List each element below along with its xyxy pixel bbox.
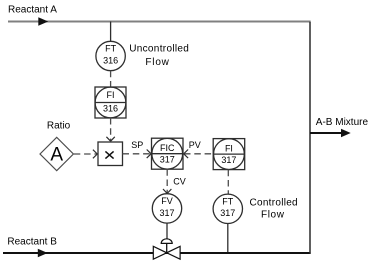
svg-text:316: 316 xyxy=(103,104,118,114)
label Controlled Flow xyxy=(250,197,298,220)
wire tap FT317 to Reactant B pipe xyxy=(227,224,229,253)
svg-text:FV: FV xyxy=(161,196,173,206)
multiplier block (x) xyxy=(98,142,123,166)
flow arrow on Reactant B pipe xyxy=(38,249,48,257)
valve stem xyxy=(166,243,168,252)
svg-text:FT: FT xyxy=(222,197,233,207)
arrowhead into FIC317 left (SP) xyxy=(147,150,151,159)
wire pipe Reactant A (top) xyxy=(8,21,311,23)
svg-text:A-B Mixture: A-B Mixture xyxy=(316,117,369,128)
svg-text:Uncontrolled: Uncontrolled xyxy=(129,43,189,54)
svg-text:316: 316 xyxy=(103,55,118,65)
flow arrow A-B Mixture xyxy=(341,129,351,137)
control valve body xyxy=(153,246,180,259)
transmitter FT317 xyxy=(213,194,242,223)
arrowhead into FV317 top (CV) xyxy=(163,189,171,193)
svg-text:FI: FI xyxy=(107,90,115,100)
svg-text:317: 317 xyxy=(159,208,174,218)
svg-text:Reactant B: Reactant B xyxy=(7,237,57,248)
arrowhead into multiplier left xyxy=(93,150,97,159)
valve actuator dome xyxy=(161,239,172,244)
svg-text:SP: SP xyxy=(131,140,143,150)
svg-text:Reactant A: Reactant A xyxy=(8,5,57,16)
controller FIC317 xyxy=(152,138,184,169)
wire signal CV FIC317 to FV317 (dashed) xyxy=(166,169,168,193)
ratio element A (diamond) xyxy=(40,137,73,170)
svg-text:Ratio: Ratio xyxy=(47,121,71,132)
svg-text:A: A xyxy=(50,145,63,166)
svg-text:FT: FT xyxy=(105,44,116,54)
arrowhead into multiplier top xyxy=(106,137,114,141)
wire signal SP multiplier to FIC317 (dashed) xyxy=(123,153,151,155)
svg-text:317: 317 xyxy=(220,208,235,218)
wire signal PV FI317 to FIC317 (dashed) xyxy=(184,153,213,155)
svg-text:317: 317 xyxy=(221,155,236,165)
valve positioner FV317 xyxy=(152,194,181,223)
indicator FI317 xyxy=(213,139,245,170)
indicator FI316 xyxy=(95,87,126,118)
wire signal FI317 to FT317 (dashed) xyxy=(227,170,229,194)
svg-text:PV: PV xyxy=(189,140,201,150)
wire signal FI316 to multiplier (dashed) xyxy=(110,118,112,141)
svg-text:Controlled: Controlled xyxy=(250,197,298,208)
wire pipe Reactant B (bottom) xyxy=(3,252,311,254)
wire signal ratio A to multiplier (dashed) xyxy=(74,153,97,155)
svg-text:CV: CV xyxy=(173,176,186,186)
svg-text:317: 317 xyxy=(160,154,175,164)
flow arrow on Reactant A pipe xyxy=(38,17,48,25)
svg-text:FI: FI xyxy=(225,143,233,153)
svg-text:Flow: Flow xyxy=(145,57,169,68)
wire FV317 to valve actuator xyxy=(166,223,168,240)
wire signal FT316 to FI316 (dashed) xyxy=(110,71,112,87)
arrowhead into FIC317 right (PV) xyxy=(184,150,188,159)
wire A-B Mixture outlet xyxy=(310,132,343,134)
label Uncontrolled Flow xyxy=(129,43,189,67)
svg-text:FIC: FIC xyxy=(160,143,175,153)
wire pipe A-B product (right vertical) xyxy=(309,22,311,254)
transmitter FT316 xyxy=(96,41,125,70)
svg-text:Flow: Flow xyxy=(261,209,285,220)
wire tap from Reactant A pipe to FT316 xyxy=(110,22,112,42)
